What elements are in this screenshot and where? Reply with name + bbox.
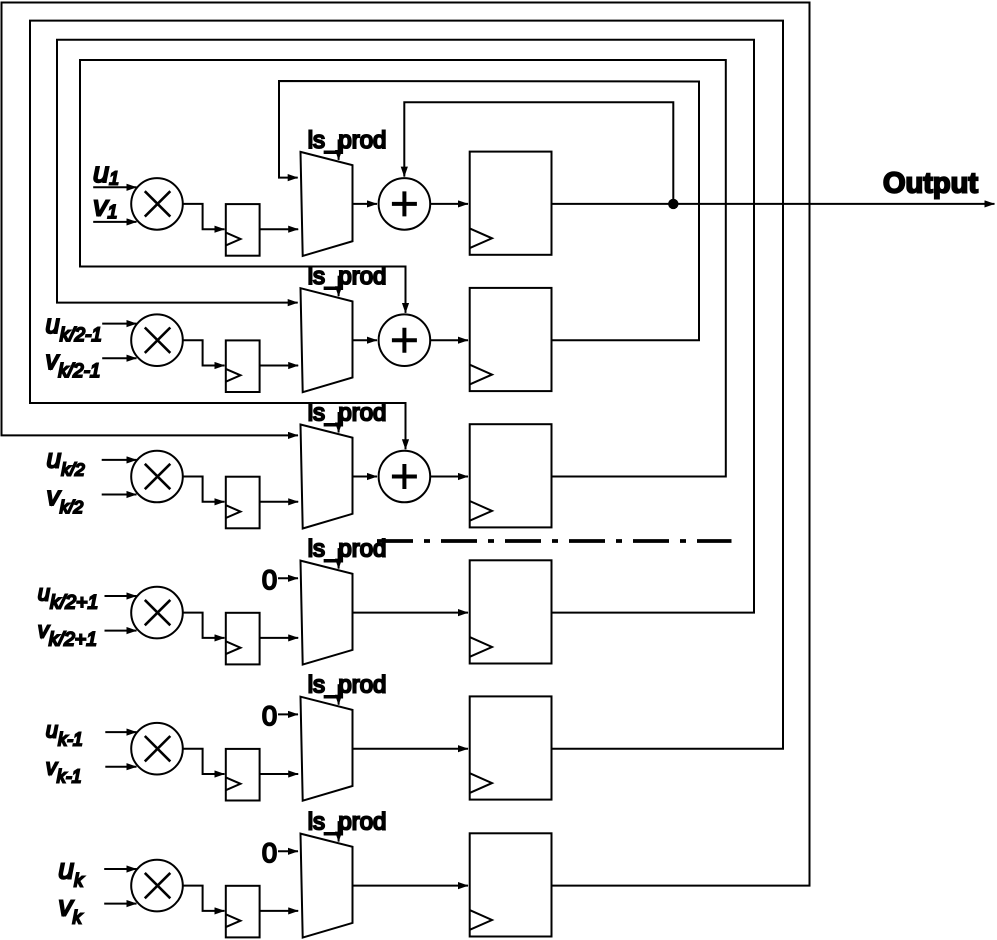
mux U1	[301, 152, 353, 256]
wire loop row3 output to row2 adder A2	[80, 60, 726, 477]
wire ls_prod select into mux U2	[338, 276, 340, 297]
wire loop row5 output to row3 adder A3	[30, 21, 783, 749]
wire v_k/2-1 input arrow	[102, 357, 136, 359]
register R1a (pipeline reg)	[226, 204, 260, 256]
svg-text:ls_prod: ls_prod	[308, 672, 387, 699]
wire mux U2 to adder A2	[353, 339, 378, 341]
register R5b (output reg)	[470, 696, 552, 799]
svg-text:ls_prod: ls_prod	[308, 536, 387, 563]
wire v_k/2 input arrow	[102, 494, 137, 496]
multiplier M2	[131, 314, 183, 366]
wire ls_prod select into mux U1	[338, 139, 340, 160]
wire register R1a to mux U1	[260, 228, 299, 230]
wire constant 0 into mux U4	[278, 577, 298, 579]
wire adder A3 to register R3b	[430, 476, 468, 478]
wire register R5a to mux U5	[260, 773, 299, 775]
mux U2	[301, 288, 353, 392]
wire ls_prod select into mux U5	[338, 684, 340, 705]
divider dash-dot line between upper and lower halves	[377, 539, 732, 543]
register R2b (output reg)	[470, 288, 552, 391]
wire u_k/2+1 input arrow	[105, 595, 137, 597]
mux U3	[301, 425, 353, 529]
wire multiplier M6 to register R6a	[183, 886, 225, 911]
adder A1	[379, 178, 431, 230]
multiplier M5	[131, 723, 183, 775]
multiplier M1	[131, 178, 183, 230]
wire multiplier M1 to register R1a	[183, 204, 225, 229]
wire u_k input arrow	[104, 868, 136, 870]
wire mux U6 to register R6b	[353, 885, 469, 887]
wire register R4a to mux U4	[260, 637, 299, 639]
wire mux U3 to adder A3	[353, 476, 378, 478]
mux U4	[301, 561, 353, 665]
wire mux U1 to adder A1	[353, 203, 378, 205]
wire multiplier M5 to register R5a	[183, 749, 225, 774]
register R6a (pipeline reg)	[226, 886, 260, 938]
wire row1 register output to Output (net OUT)	[552, 203, 995, 205]
register R1b (output reg)	[470, 152, 552, 255]
wire multiplier M3 to register R3a	[183, 477, 225, 502]
multiplier M3	[131, 451, 183, 503]
adder A3	[379, 451, 431, 503]
wire loop row4 output to row2 mux U2	[57, 40, 754, 613]
wire u_k/2-1 input arrow	[102, 323, 136, 325]
register R3a (pipeline reg)	[226, 477, 260, 529]
wire loop row2 output to row1 mux U1	[279, 81, 699, 340]
register R4a (pipeline reg)	[226, 613, 260, 665]
wire v_1 input arrow	[93, 221, 136, 223]
svg-text:Output: Output	[883, 168, 978, 200]
wire u_k/2 input arrow	[102, 459, 137, 461]
mux U6	[301, 834, 353, 938]
wire adder A2 to register R2b	[430, 339, 468, 341]
wire v_k/2+1 input arrow	[105, 630, 137, 632]
wire ls_prod select into mux U3	[338, 412, 340, 433]
svg-text:0: 0	[262, 838, 277, 868]
wire register R6a to mux U6	[260, 910, 299, 912]
wire mux U4 to register R4b	[353, 612, 469, 614]
wire accumulator feedback row1: dot up, left, down into adder A1	[404, 102, 673, 204]
node J1 (junction dot on output line)	[668, 199, 678, 209]
register R6b (output reg)	[470, 833, 552, 936]
wire multiplier M4 to register R4a	[183, 613, 225, 638]
multiplier M4	[131, 587, 183, 639]
wire ls_prod select into mux U4	[338, 548, 340, 569]
register R2a (pipeline reg)	[226, 340, 260, 392]
register R5a (pipeline reg)	[226, 749, 260, 801]
register R4b (output reg)	[470, 560, 552, 663]
svg-text:ls_prod: ls_prod	[308, 127, 387, 154]
wire constant 0 into mux U5	[278, 713, 298, 715]
register R3b (output reg)	[470, 424, 552, 527]
wire mux U5 to register R5b	[353, 748, 469, 750]
svg-text:0: 0	[262, 565, 277, 595]
mux U5	[301, 697, 353, 801]
wire loop row6 output to row3 mux U3	[2, 3, 810, 886]
wire multiplier M2 to register R2a	[183, 340, 225, 365]
wire u_1 input arrow	[93, 186, 136, 188]
wire v_k-1 input arrow	[105, 766, 136, 768]
adder A2	[379, 314, 431, 366]
wire constant 0 into mux U6	[278, 850, 298, 852]
wire register R2a to mux U2	[260, 365, 299, 367]
svg-text:0: 0	[262, 701, 277, 731]
svg-text:ls_prod: ls_prod	[308, 809, 387, 836]
wire u_k-1 input arrow	[105, 731, 136, 733]
wire register R3a to mux U3	[260, 501, 299, 503]
wire v_k input arrow	[104, 903, 136, 905]
wire adder A1 to register R1b	[430, 203, 468, 205]
multiplier M6	[131, 860, 183, 912]
wire ls_prod select into mux U6	[338, 821, 340, 842]
